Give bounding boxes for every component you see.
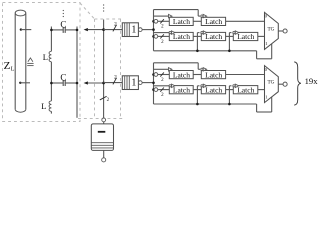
wire [193,35,201,37]
mux TG bot [265,66,279,103]
svg-text:Latch: Latch [205,32,222,41]
sampling strip rail [103,20,105,118]
bus marker /2 on rail [100,96,107,100]
ladder left rail [50,27,52,52]
node: cylinder tap A [20,28,22,30]
ellipsis above ladder [63,10,64,11]
output terminal top [283,29,287,33]
input terminal row2 [154,88,158,92]
input terminal row1 [154,73,158,77]
wire [88,82,104,84]
wire [142,29,153,31]
clock source terminal (top) [102,118,106,122]
wire [278,30,283,32]
signal arrow [84,28,88,31]
svg-text:Latch: Latch [173,85,190,94]
svg-text:Latch: Latch [173,17,190,26]
dashed box: transmission-line equivalent model [3,3,81,122]
node: sampler feed [152,82,155,85]
node [152,35,155,38]
wire [20,82,30,84]
svg-text:C: C [60,20,66,30]
node [50,29,53,32]
svg-text:Latch: Latch [173,32,190,41]
svg-text:Latch: Latch [205,17,222,26]
wire [104,29,123,31]
node [76,82,79,85]
node [196,50,199,53]
wire to mux input 1 [258,35,265,37]
svg-text:TG: TG [267,26,274,32]
clock source terminal (bottom) [102,158,106,162]
bus marker /2 [160,88,164,92]
latch bot1A [169,71,193,79]
group bot: clock/top line [154,62,199,64]
latch top1A [169,17,193,25]
wire [21,29,31,31]
wire to mux input 1 [258,89,265,91]
inductor L2 [49,101,51,112]
latch top2C [233,32,257,40]
svg-text:Latch: Latch [237,85,254,94]
sampler buffer box [122,76,138,90]
node [152,88,155,91]
node [152,20,155,23]
wire [158,35,170,37]
output terminal [138,81,142,85]
wire [226,89,234,91]
wire: clock to latch bot2A [154,85,170,87]
defined-as symbol [28,58,33,62]
clock rail [154,103,257,105]
svg-text:1: 1 [131,77,136,88]
wire [158,89,170,91]
wire: clock to latch top1A [154,15,169,17]
svg-text:Latch: Latch [237,32,254,41]
transmission line element Z_L (cylinder) [15,10,26,16]
node [76,29,79,32]
wire: clock to latch bot1A [154,68,169,70]
ladder right rail [76,27,78,118]
wire [193,20,201,22]
svg-text:L: L [11,66,15,72]
clock stub [228,33,230,51]
svg-text:L: L [41,101,46,111]
latch bot1B [201,71,225,79]
wire [88,29,104,31]
sampler buffer box [122,23,138,37]
wire to mux input 0 [226,20,265,22]
wire [65,82,77,84]
svg-text:TG: TG [267,80,274,86]
node [152,73,155,76]
wire [158,74,170,76]
svg-text:C: C [60,73,66,83]
clock stub [196,33,198,51]
wire [51,29,63,31]
latch top2A [169,32,193,40]
node [228,103,231,106]
wire [65,29,77,31]
output terminal bot [283,82,287,86]
wire [142,82,153,84]
brace for 19 repeated slices [294,62,301,105]
inductor L1 [49,51,51,62]
latch top2B [201,32,225,40]
svg-text:1: 1 [131,24,136,35]
output terminal [138,28,142,32]
node: cylinder tap B [19,82,21,84]
wire [104,82,123,84]
node [102,82,105,85]
wire: top line down to latch bot1B clock [197,63,199,70]
bus marker /2 [113,78,117,85]
wire [103,122,105,124]
svg-text:2: 2 [114,21,117,27]
node [102,28,105,31]
wire [158,20,170,22]
svg-text:L: L [43,52,48,62]
node [50,82,53,85]
dashed box: sampling strip detail [95,18,123,20]
clock stub [196,86,198,104]
latch top1B [201,17,225,25]
svg-text:Latch: Latch [205,85,222,94]
bus marker /2 [113,25,117,32]
select route to mux [256,51,258,59]
wire [278,83,283,85]
wire to mux input 0 [226,74,265,76]
input terminal row2 [154,35,158,39]
capacitor C plates [62,80,64,86]
mux TG top [265,12,279,49]
node [196,103,199,106]
clock generator box [91,124,113,150]
svg-text:19x: 19x [305,76,319,86]
wire: clock to latch top2A [154,32,170,34]
bus marker /2 [160,19,164,23]
ellipsis above rail [103,4,104,5]
wire [193,74,201,76]
latch bot2C [233,86,257,94]
bus marker /2 [160,34,164,38]
wire [51,82,63,84]
select route to mux [256,104,258,112]
signal arrow [84,81,88,84]
capacitor C plates [62,27,64,33]
bus marker /2 [160,72,164,76]
node: sampler feed [152,28,155,31]
input terminal row1 [154,19,158,23]
clock stub [228,86,230,104]
projection line (model to strip) [80,3,95,19]
group top: clock/top line [154,9,199,11]
wire [226,35,234,37]
latch bot2A [169,86,193,94]
svg-text:Latch: Latch [205,70,222,79]
svg-text:Latch: Latch [173,70,190,79]
node [228,50,231,53]
clock rail [154,50,257,52]
wire [103,150,105,157]
svg-text:2: 2 [114,74,117,80]
svg-text:Z: Z [4,60,11,72]
wire: top line down to latch top1B clock [197,10,199,17]
latch bot2B [201,86,225,94]
wire [193,89,201,91]
